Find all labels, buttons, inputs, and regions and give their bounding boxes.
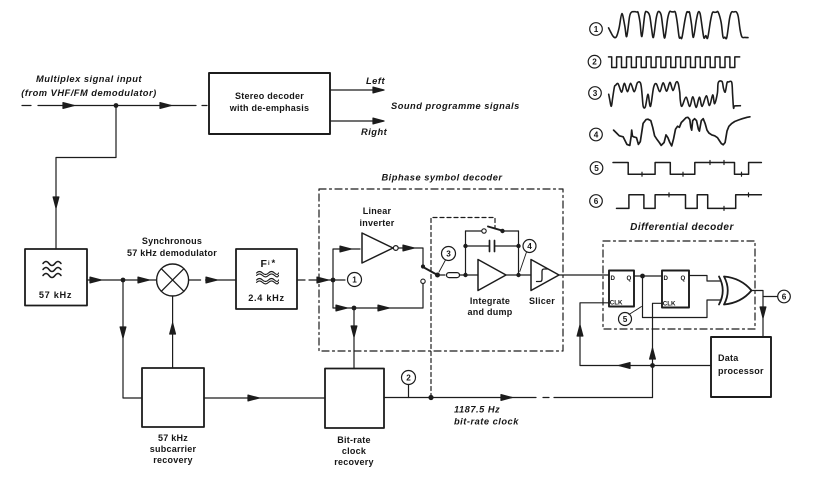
svg-text:i: i xyxy=(268,261,270,267)
junction capacitor right xyxy=(516,244,520,248)
svg-text:2.4 kHz: 2.4 kHz xyxy=(248,293,285,303)
node switch lower contact xyxy=(421,279,425,283)
wire clock riser to FF2 CLK xyxy=(650,303,662,397)
junction input tap xyxy=(114,103,119,108)
wire split up to inverter xyxy=(333,246,360,280)
svg-text:(from VHF/FM demodulator): (from VHF/FM demodulator) xyxy=(21,88,156,98)
svg-text:57 kHz: 57 kHz xyxy=(39,290,72,300)
junction biphase input split xyxy=(331,278,336,283)
svg-text:and dump: and dump xyxy=(468,307,513,317)
svg-text:Stereo decoder: Stereo decoder xyxy=(235,91,304,101)
junction capacitor left xyxy=(463,244,467,248)
junction clock tap to dashed control xyxy=(428,395,433,400)
wire tap down to subcarrier recovery xyxy=(120,280,142,398)
resistor integrator input xyxy=(440,273,478,278)
wire data processor feedback to FF1 clock xyxy=(577,303,711,369)
wire inverter output to switch contact xyxy=(398,245,423,264)
svg-text:recovery: recovery xyxy=(334,457,374,467)
svg-text:2: 2 xyxy=(406,374,411,383)
wire FF1 Q to FF2 D xyxy=(634,275,662,277)
wire XOR output xyxy=(751,291,778,338)
node waveform 6 label xyxy=(590,195,603,208)
svg-text:6: 6 xyxy=(782,293,787,302)
node test point 4 xyxy=(520,240,536,272)
filter 57 kHz bandpass xyxy=(25,249,87,306)
svg-text:6: 6 xyxy=(594,197,599,206)
svg-text:*: * xyxy=(272,258,276,269)
svg-text:1: 1 xyxy=(352,276,357,285)
comparator slicer xyxy=(529,260,559,307)
wire Left output xyxy=(330,76,385,93)
wire slicer output to differential decoder xyxy=(559,274,609,276)
wire 2.4 kHz filter to biphase decoder xyxy=(297,277,333,283)
switch polarity selector xyxy=(423,267,440,278)
switch dump (integrate and dump) xyxy=(466,227,519,234)
svg-text:Q: Q xyxy=(681,275,686,282)
wire FF1 output down to XOR lower input xyxy=(643,276,721,318)
node switch upper contact xyxy=(421,264,425,268)
node waveform 5 label xyxy=(590,162,603,175)
wire FF2 Q to XOR upper input xyxy=(689,276,720,282)
node waveform 1 label xyxy=(590,23,603,36)
node waveform 3 label xyxy=(589,87,602,100)
node linear inverter label xyxy=(359,206,394,228)
junction clock to FF2 riser xyxy=(650,363,655,368)
svg-text:Sound programme signals: Sound programme signals xyxy=(391,101,520,111)
node test point 6 output xyxy=(778,290,791,303)
svg-text:with de-emphasis: with de-emphasis xyxy=(229,103,310,113)
svg-text:4: 4 xyxy=(527,242,532,251)
node sound programme signals label xyxy=(391,101,520,111)
node waveform 2 label xyxy=(588,55,601,68)
svg-text:Bit-rate: Bit-rate xyxy=(337,435,371,445)
block differential decoder (dashed) xyxy=(603,241,755,329)
node 1187.5 Hz bit-rate clock label xyxy=(454,405,519,427)
op-amp integrate and dump xyxy=(468,260,513,318)
svg-text:1: 1 xyxy=(594,25,599,34)
svg-text:3: 3 xyxy=(593,89,598,98)
svg-text:Data: Data xyxy=(718,353,739,363)
node test point 3 xyxy=(439,247,456,273)
svg-text:D: D xyxy=(664,275,669,282)
svg-text:5: 5 xyxy=(594,164,599,173)
xor-gate differential decoder xyxy=(719,277,752,305)
svg-text:2: 2 xyxy=(592,58,597,67)
node waveform 4 label xyxy=(590,128,603,141)
junction integrator input node xyxy=(463,273,467,277)
wire waveform 5 trace (decoded symbols) xyxy=(613,161,761,177)
wire waveform 6 trace (differential output) xyxy=(617,193,762,211)
wire tap down to 57 kHz filter xyxy=(53,106,116,250)
block 57 kHz subcarrier recovery xyxy=(142,368,204,465)
block data processor xyxy=(711,337,771,397)
svg-text:CLK: CLK xyxy=(610,300,623,307)
wire waveform 4 trace (integrator output) xyxy=(614,117,750,146)
op-amp linear inverter xyxy=(362,233,398,263)
wire waveform 2 trace (clock) xyxy=(609,57,740,68)
node multiplex input label xyxy=(21,74,156,98)
svg-text:bit-rate clock: bit-rate clock xyxy=(454,417,519,427)
junction filter output tap xyxy=(121,278,126,283)
block stereo decoder U1 xyxy=(209,73,330,134)
wire multiplex input line xyxy=(22,103,207,109)
wire 57 kHz filter to mixer xyxy=(87,277,157,283)
wire feedback left riser xyxy=(465,231,467,275)
junction FF1 output tap xyxy=(640,274,645,279)
node biphase symbol decoder title xyxy=(381,173,503,183)
wire waveform 3 trace (multiplied signal) xyxy=(609,81,741,108)
svg-text:57 kHz demodulator: 57 kHz demodulator xyxy=(127,248,217,258)
svg-text:Left: Left xyxy=(366,76,385,86)
svg-text:Biphase symbol decoder: Biphase symbol decoder xyxy=(381,173,503,183)
svg-text:Synchronous: Synchronous xyxy=(142,236,202,246)
svg-text:CLK: CLK xyxy=(663,301,676,308)
svg-text:57 kHz: 57 kHz xyxy=(158,433,188,443)
svg-text:subcarrier: subcarrier xyxy=(150,444,197,454)
wire feedback right riser xyxy=(518,231,520,275)
junction integrator output node xyxy=(516,273,520,277)
wire biphase lower path to bit-rate clock recovery xyxy=(351,306,357,369)
svg-text:Multiplex signal input: Multiplex signal input xyxy=(36,74,142,84)
wire subcarrier recovery to bit-rate clock recovery xyxy=(204,395,325,401)
node test point 2 xyxy=(402,371,416,398)
node test point 5 xyxy=(619,307,642,326)
flip-flop FF2 xyxy=(662,271,689,308)
wire split down to direct path xyxy=(333,280,423,311)
mixer synchronous demodulator xyxy=(127,236,217,296)
svg-text:5: 5 xyxy=(623,315,628,324)
svg-text:Integrate: Integrate xyxy=(470,296,510,306)
wire Right output xyxy=(330,118,388,137)
block bit-rate clock recovery xyxy=(325,369,384,468)
svg-text:F: F xyxy=(261,258,268,270)
flip-flop FF1 xyxy=(609,271,634,307)
svg-text:inverter: inverter xyxy=(359,218,394,228)
svg-text:Differential decoder: Differential decoder xyxy=(630,222,734,233)
svg-text:1187.5 Hz: 1187.5 Hz xyxy=(454,405,500,415)
wire mixer to 2.4 kHz filter xyxy=(189,277,236,283)
wire bit-rate clock line xyxy=(384,395,653,401)
svg-text:Linear: Linear xyxy=(363,206,392,216)
svg-text:processor: processor xyxy=(718,366,764,376)
svg-text:recovery: recovery xyxy=(153,455,193,465)
svg-text:Slicer: Slicer xyxy=(529,296,555,306)
svg-text:clock: clock xyxy=(342,446,367,456)
filter F* 2.4 kHz lowpass xyxy=(236,249,297,309)
capacitor integrator feedback xyxy=(466,241,519,252)
node test point 1 xyxy=(335,273,362,287)
wire subcarrier recovery to mixer xyxy=(170,296,176,368)
wire integrator to slicer xyxy=(506,274,531,276)
svg-text:3: 3 xyxy=(446,250,451,259)
svg-text:4: 4 xyxy=(594,131,599,140)
node differential decoder title xyxy=(630,222,734,233)
wire waveform 1 trace (57 kHz biphase signal) xyxy=(609,11,748,39)
block biphase symbol decoder (dashed) xyxy=(319,189,563,351)
wire bit-rate clock control (dashed) xyxy=(431,218,495,398)
svg-text:D: D xyxy=(611,275,616,282)
svg-text:Q: Q xyxy=(627,275,632,282)
svg-text:Right: Right xyxy=(361,127,388,137)
